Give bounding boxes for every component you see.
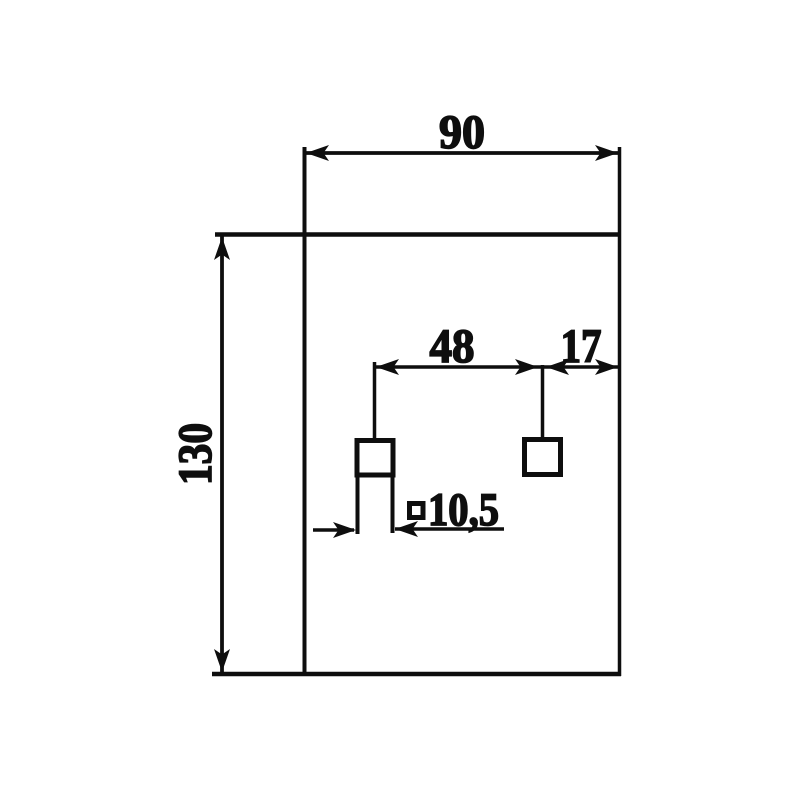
svg-text:17: 17 (561, 320, 602, 373)
arrow right of dimension 17 (595, 359, 618, 375)
svg-text:90: 90 (439, 106, 485, 159)
dimension line 90 (304, 151, 619, 155)
plate right edge (618, 147, 622, 676)
svg-text:130: 130 (169, 423, 222, 485)
arrow left of dimension 17 (546, 359, 569, 375)
arrow left of dimension 90 (306, 145, 329, 161)
arrow bottom of dimension 130 (214, 649, 230, 672)
arrow left of dimension 48 (376, 359, 399, 375)
extension line from right square up to 48 dimension (541, 365, 545, 439)
dimension line 48 (375, 365, 543, 369)
left arrowhead of dimension 10.5 pointing right (333, 522, 356, 538)
right square hole (525, 440, 561, 475)
plate left edge (303, 147, 307, 676)
plate top edge (215, 232, 621, 237)
svg-text:10,5: 10,5 (428, 484, 499, 536)
plate bottom edge (212, 672, 621, 677)
left square hole (357, 441, 393, 476)
arrow top of dimension 130 (214, 237, 230, 260)
dimension line 17 (543, 365, 620, 369)
arrow right of dimension 48 (515, 359, 538, 375)
right arrowhead of dimension 10.5 pointing left (395, 521, 418, 537)
svg-text:48: 48 (430, 320, 475, 373)
right arrow line of dimension 10.5 (395, 527, 504, 531)
dimension line 130 (220, 234, 224, 672)
arrow right of dimension 90 (595, 145, 618, 161)
left square right side extension down (391, 475, 395, 533)
left square left side extension down (356, 475, 360, 534)
small square symbol of label 10,5 (410, 504, 424, 518)
left arrow line of dimension 10.5 (313, 528, 354, 532)
extension line from left square up to 48 dimension (373, 362, 377, 440)
